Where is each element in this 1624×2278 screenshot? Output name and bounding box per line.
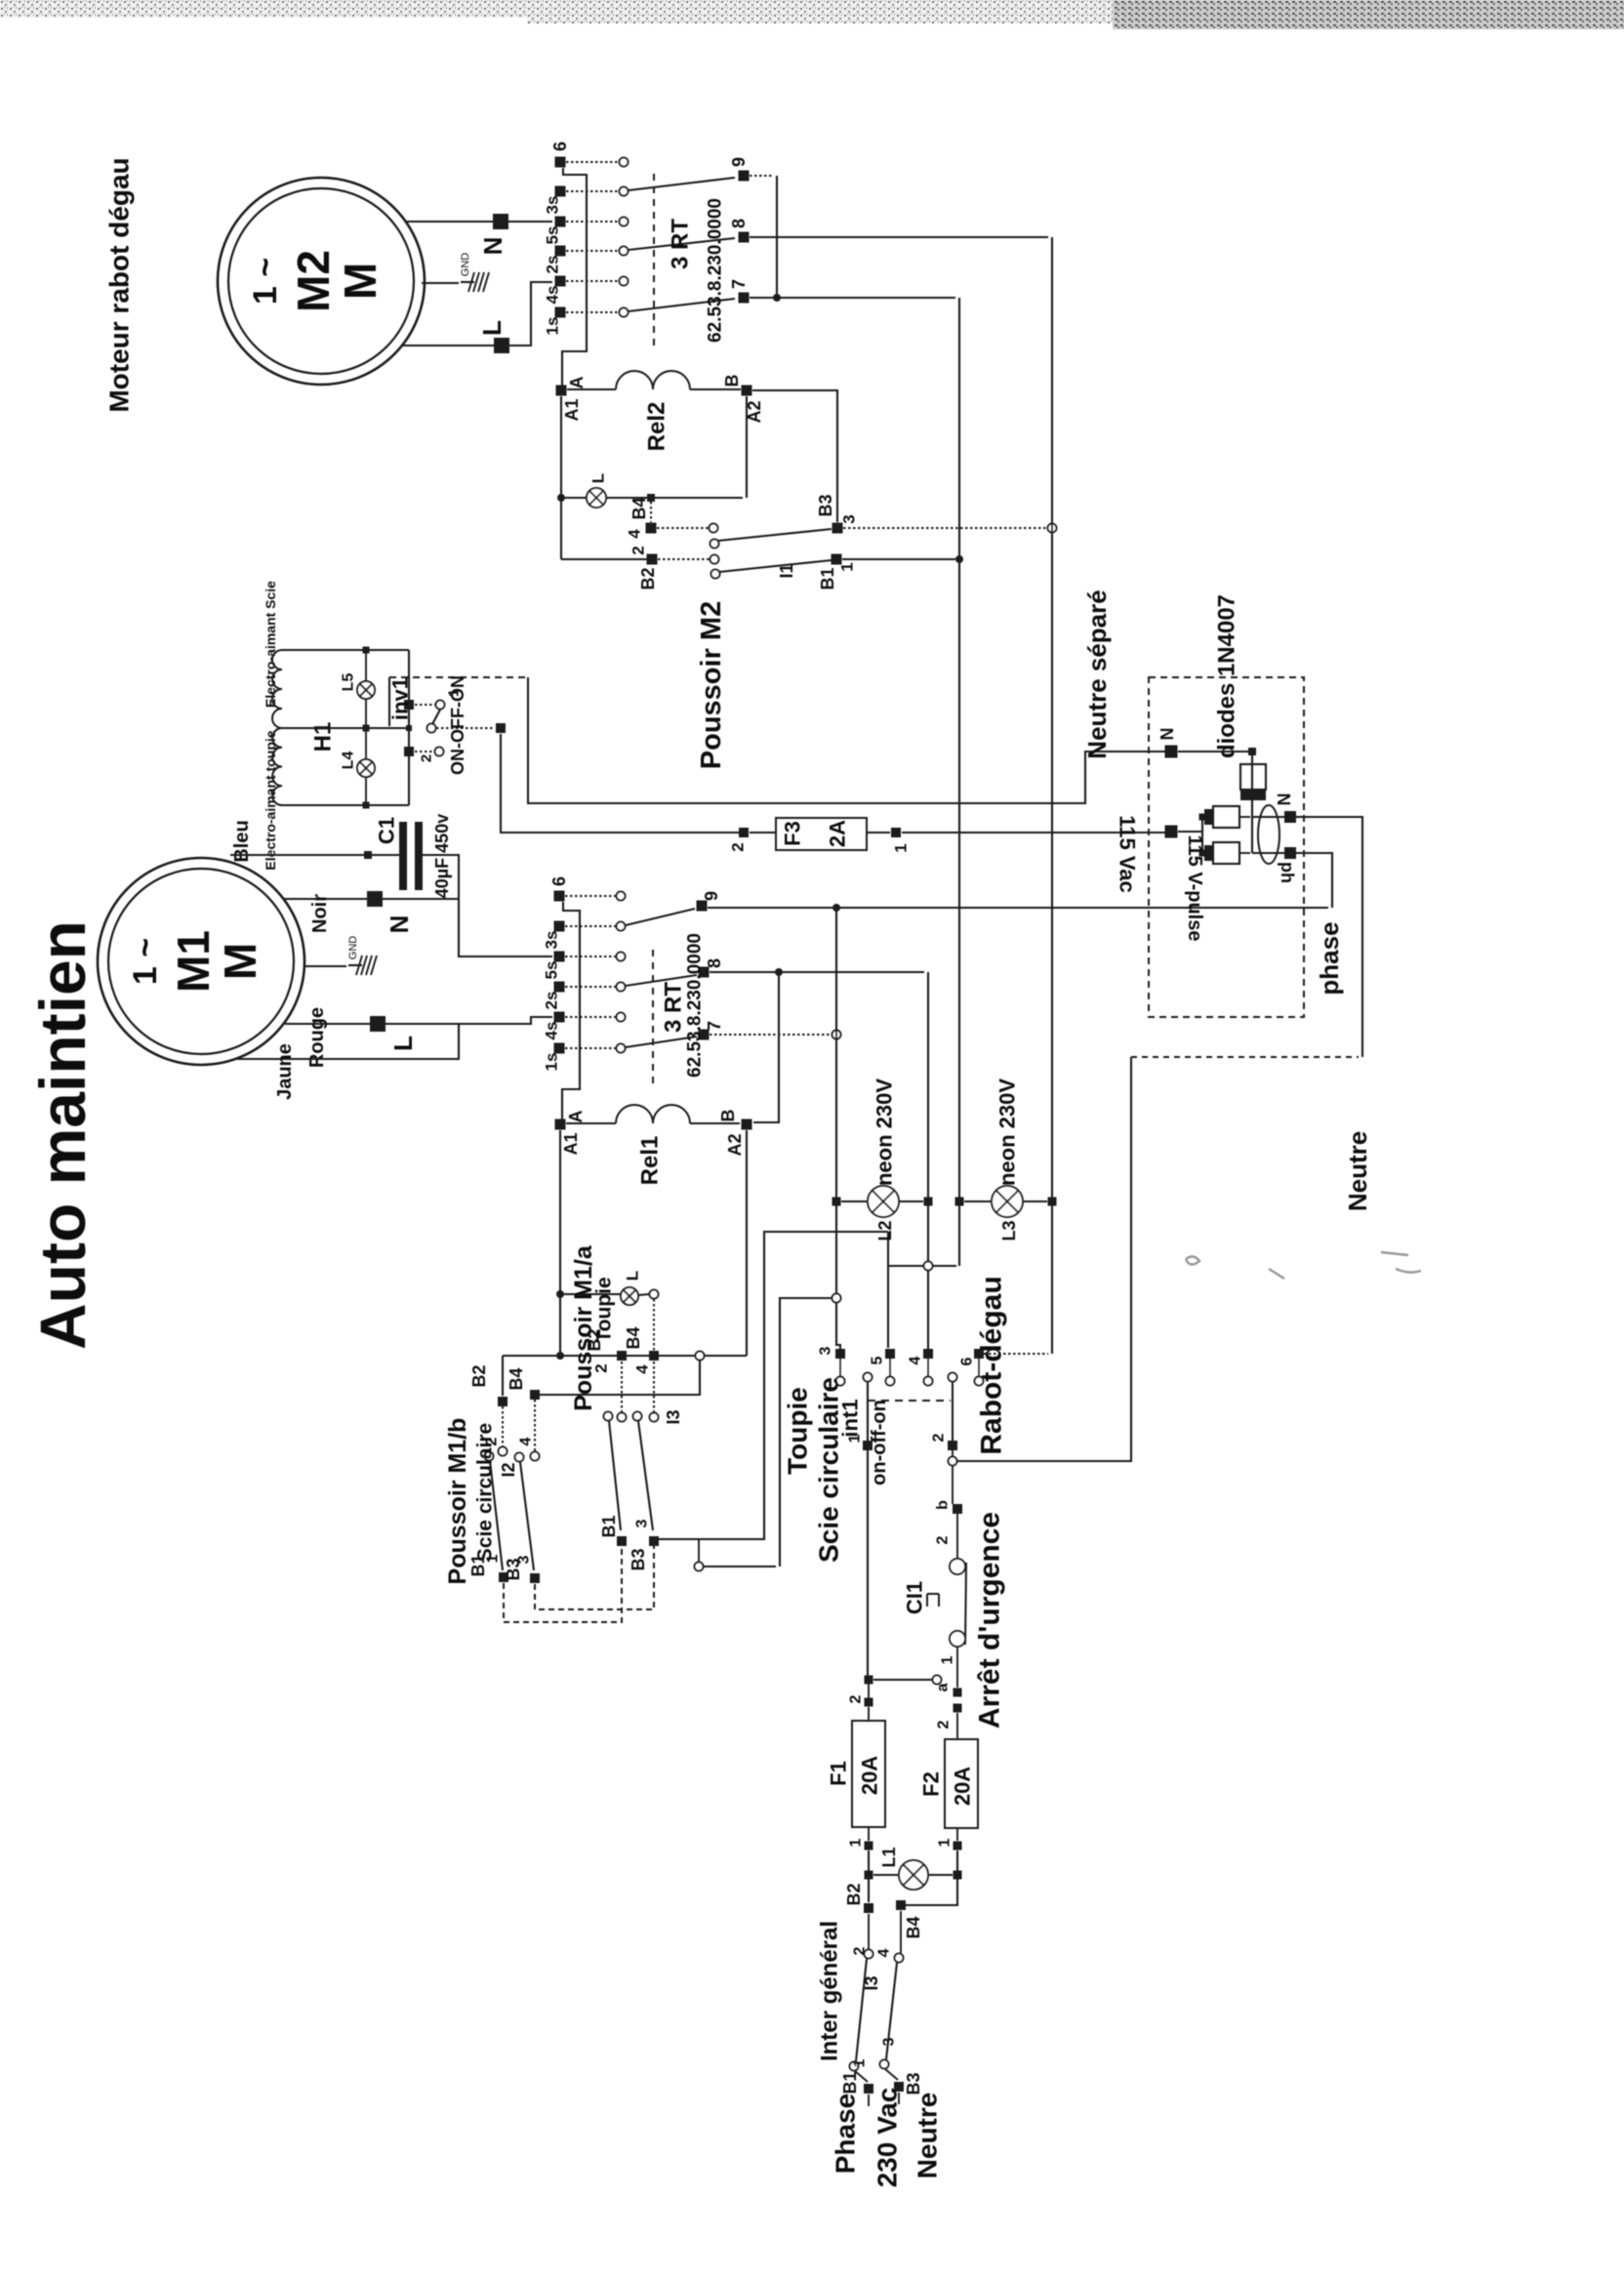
switch inv1	[404, 700, 414, 710]
terminal 9 K1	[697, 901, 708, 912]
svg-text:L3: L3	[999, 1220, 1019, 1241]
vertical M1-8 net	[927, 972, 929, 1350]
svg-text:Rel1: Rel1	[637, 1136, 664, 1186]
svg-text:A: A	[567, 377, 587, 389]
svg-text:5s: 5s	[544, 226, 562, 245]
wire neutre separe dashed	[1131, 1056, 1359, 1058]
svg-text:L: L	[388, 1036, 418, 1051]
svg-text:3: 3	[840, 514, 859, 523]
wire B3 M1a to selector net	[659, 1232, 888, 1539]
svg-text:B1: B1	[818, 567, 837, 590]
svg-text:GND: GND	[460, 253, 471, 277]
terminal 7 K2	[739, 293, 750, 304]
svg-text:ph: ph	[1278, 862, 1297, 883]
svg-text:2: 2	[848, 1694, 865, 1703]
wire K1-9	[708, 907, 1328, 909]
svg-text:9: 9	[729, 157, 749, 167]
svg-text:neon 230V: neon 230V	[873, 1078, 897, 1186]
svg-text:Noir: Noir	[309, 894, 331, 933]
svg-text:5: 5	[870, 1356, 886, 1364]
svg-text:M: M	[335, 263, 386, 300]
vertical phase bus F1	[867, 1450, 869, 1677]
switch int1 pole1 blade	[864, 1373, 873, 1382]
svg-text:4s: 4s	[543, 1022, 561, 1040]
svg-text:H1: H1	[310, 722, 337, 753]
svg-text:B3: B3	[904, 2072, 923, 2095]
wire Rouge / L	[285, 1017, 552, 1024]
wire A1 Rel2 down	[560, 396, 562, 559]
svg-text:B4: B4	[507, 1367, 526, 1390]
fuse F2	[945, 1739, 978, 1828]
svg-text:3: 3	[881, 2037, 898, 2046]
svg-text:B1: B1	[599, 1515, 619, 1537]
blades K1	[626, 909, 695, 925]
wire C1 to N node	[423, 855, 552, 956]
svg-text:I2: I2	[499, 1462, 518, 1477]
svg-text:2: 2	[852, 1946, 869, 1955]
wire K2-9 to 7	[750, 175, 772, 177]
wire N to D1	[1178, 751, 1248, 753]
svg-text:N: N	[1157, 728, 1177, 741]
svg-text:2: 2	[936, 1720, 953, 1729]
junction lamp L1 right	[954, 1871, 962, 1880]
svg-text:6: 6	[550, 142, 570, 151]
wire B3 to M2-8 drop	[843, 527, 1046, 529]
lamp row Rel2	[557, 494, 565, 502]
terminal B4 poussoir M2	[646, 523, 657, 534]
terminal B4 inter general	[896, 1900, 906, 1910]
contact M2/a	[657, 527, 709, 529]
wire K1-8	[710, 971, 924, 973]
terminal B3 poussoir M1a	[649, 1536, 659, 1546]
wire K2-7 long	[750, 297, 955, 299]
svg-text:A2: A2	[725, 1133, 745, 1156]
poussoir M1 bus row	[503, 1355, 747, 1357]
svg-text:3s: 3s	[544, 196, 562, 215]
svg-text:B1: B1	[840, 2071, 860, 2094]
wire bus left corner to B2 M1b	[502, 1356, 504, 1396]
blade inv1	[432, 710, 440, 724]
terminal B3 poussoir M2	[832, 523, 843, 534]
wire K1-7	[710, 1034, 832, 1036]
svg-text:B4: B4	[629, 497, 649, 519]
svg-text:Scie circulaire: Scie circulaire	[814, 1377, 844, 1563]
svg-text:3 RT: 3 RT	[661, 982, 687, 1033]
lamp row Rel1	[564, 1293, 621, 1295]
svg-text:Auto maintien: Auto maintien	[26, 920, 99, 1350]
svg-text:1: 1	[937, 1838, 954, 1847]
stub B1	[868, 2095, 870, 2106]
svg-text:L: L	[589, 473, 608, 483]
wire neutre separe from H1	[528, 677, 1167, 803]
blade I1	[719, 560, 832, 572]
mushroom symbol CI1	[927, 1594, 939, 1607]
terminal 115Vac	[1165, 826, 1178, 838]
lamp column H1	[365, 650, 367, 805]
terminal B2 poussoir M1a	[617, 1351, 627, 1361]
svg-text:L2: L2	[875, 1220, 895, 1241]
svg-text:diodes 1N4007: diodes 1N4007	[1214, 594, 1240, 758]
svg-text:N: N	[1275, 793, 1294, 806]
contactor K2 3RT M2	[555, 157, 566, 168]
wire int1-6 to M2-8 net	[984, 1353, 1048, 1355]
blades K2	[629, 178, 735, 190]
terminal B2 poussoir M1b	[498, 1397, 507, 1406]
svg-text:8: 8	[705, 958, 724, 968]
svg-text:L: L	[624, 1271, 642, 1281]
svg-text:M2: M2	[288, 250, 339, 312]
svg-text:F3: F3	[781, 821, 805, 846]
fuse F1	[868, 1684, 870, 1698]
terminal B4 poussoir M1b	[530, 1390, 540, 1400]
terminal F3-2	[739, 828, 749, 837]
svg-text:CI1: CI1	[903, 1581, 927, 1614]
svg-text:B4: B4	[904, 1916, 923, 1938]
svg-text:GND: GND	[347, 936, 359, 960]
svg-text:3: 3	[634, 1519, 651, 1527]
mech link K2	[653, 174, 655, 347]
svg-text:2: 2	[935, 1535, 952, 1544]
box neutre separe diodes	[1149, 677, 1304, 1017]
svg-text:4: 4	[908, 1356, 924, 1364]
svg-text:115 Vac: 115 Vac	[1116, 815, 1140, 893]
svg-text:9: 9	[702, 891, 721, 901]
wire F3 to 115Vac box	[902, 832, 1165, 834]
svg-text:115 V-pulse: 115 V-pulse	[1184, 835, 1205, 942]
vertical Rel1-A2 to K1-8	[753, 972, 779, 1122]
svg-text:62.53.8.230.0000: 62.53.8.230.0000	[706, 198, 726, 343]
svg-text:F2: F2	[919, 1771, 944, 1797]
blade CI1	[965, 1563, 966, 1645]
wire A1 Rel1 down	[559, 1130, 561, 1356]
wire N out	[1252, 816, 1286, 818]
svg-text:on-off-on: on-off-on	[869, 1400, 890, 1485]
switch int1 throw 3	[835, 1349, 845, 1359]
stub B3	[898, 2093, 900, 2104]
wire ph out	[1252, 852, 1286, 854]
svg-text:1 ~: 1 ~	[127, 938, 164, 985]
wire Jaune	[237, 1024, 459, 1059]
svg-text:4s: 4s	[544, 286, 562, 305]
svg-text:ON-OFF-ON: ON-OFF-ON	[448, 675, 467, 775]
switch int1 throw 4	[923, 1349, 933, 1359]
svg-text:1: 1	[940, 1655, 956, 1664]
svg-text:2: 2	[931, 1433, 948, 1442]
lamp L5	[357, 681, 375, 699]
svg-text:M: M	[215, 943, 265, 980]
svg-text:I3: I3	[664, 1409, 683, 1424]
terminal B3 poussoir M1b	[530, 1573, 540, 1583]
svg-text:Moteur rabot dégau: Moteur rabot dégau	[104, 157, 135, 412]
svg-text:B: B	[722, 375, 742, 387]
contactor K1 3RT M1	[554, 891, 565, 902]
svg-text:8: 8	[729, 219, 749, 228]
terminal B1 poussoir M1a	[617, 1536, 627, 1546]
wire cross link	[888, 1265, 956, 1267]
svg-text:L5: L5	[341, 673, 357, 692]
terminal N M2	[493, 214, 508, 229]
switch int1 pole2 blade	[949, 1373, 957, 1382]
fuse F3	[776, 818, 867, 850]
terminal N M1	[367, 891, 383, 907]
lamp L Rel2	[587, 488, 606, 508]
svg-text:1: 1	[838, 562, 857, 571]
mech link K1	[652, 950, 654, 1087]
relay coil Rel2	[556, 386, 567, 396]
svg-text:Poussoir M1/b: Poussoir M1/b	[444, 1418, 471, 1585]
svg-text:M1: M1	[168, 930, 219, 993]
svg-text:6: 6	[549, 876, 569, 886]
switch I3 pole1	[865, 1950, 873, 1959]
wire selector to int1-5	[887, 1232, 889, 1348]
svg-text:2: 2	[419, 754, 435, 762]
svg-text:Bleu: Bleu	[231, 820, 253, 862]
svg-text:Arrêt d'urgence: Arrêt d'urgence	[974, 1512, 1006, 1729]
svg-text:5s: 5s	[543, 961, 561, 980]
ground M2	[422, 282, 459, 284]
svg-text:L: L	[477, 320, 507, 336]
svg-text:2A: 2A	[826, 820, 850, 847]
switch int1 throw 5	[885, 1349, 895, 1359]
terminal B2 inter general	[864, 1903, 873, 1913]
svg-text:neon 230V: neon 230V	[995, 1078, 1020, 1186]
switch I3 pole2	[895, 1954, 904, 1963]
wire M2 L	[403, 282, 552, 346]
wire diode verticals	[1201, 817, 1203, 853]
svg-text:1: 1	[848, 1838, 865, 1847]
wire to B4 M1a	[653, 1299, 655, 1351]
vertical M1-9/7 net	[836, 908, 840, 1350]
svg-text:B2: B2	[844, 1883, 864, 1905]
svg-text:7: 7	[705, 1021, 724, 1031]
svg-text:I3: I3	[862, 1975, 881, 1990]
svg-text:Rabot-dégau: Rabot-dégau	[976, 1276, 1008, 1454]
svg-text:N: N	[478, 237, 507, 256]
pulse load oval	[1258, 805, 1279, 864]
switch int1 throw 6	[974, 1349, 984, 1359]
terminal 7 K1	[699, 1030, 710, 1040]
svg-text:B4: B4	[624, 1326, 643, 1349]
svg-text:B3: B3	[816, 494, 835, 516]
svg-text:4: 4	[626, 529, 644, 539]
svg-text:3 RT: 3 RT	[668, 219, 694, 269]
relay coil Rel1	[555, 1119, 566, 1130]
diode D3	[1199, 850, 1206, 857]
neon lamp L2	[832, 1198, 841, 1206]
wire A2 Rel2 to B3	[752, 390, 837, 522]
svg-text:A1: A1	[562, 398, 582, 421]
svg-text:Phase: Phase	[831, 2094, 861, 2175]
svg-text:2s: 2s	[543, 992, 561, 1010]
mech link int1	[868, 1400, 951, 1402]
svg-text:62.53.8.230.0000: 62.53.8.230.0000	[685, 933, 706, 1078]
wire N out box	[1304, 817, 1362, 1057]
scan smudge marks	[1186, 1252, 1421, 1279]
svg-text:Neutre séparé: Neutre séparé	[1082, 590, 1112, 758]
svg-text:3s: 3s	[543, 931, 561, 950]
svg-text:4: 4	[876, 1948, 893, 1957]
svg-text:B2: B2	[638, 567, 658, 590]
svg-text:1: 1	[852, 2058, 869, 2067]
junction B4 drop	[647, 494, 655, 502]
svg-text:Jaune: Jaune	[274, 1043, 296, 1100]
neon lamp L3	[955, 1198, 964, 1206]
wire CI1-a to F1 bus	[873, 1679, 932, 1681]
terminal B3 inter general	[894, 2082, 904, 2092]
blades poussoir M1b	[490, 1461, 503, 1570]
terminal B4 poussoir M1a	[649, 1351, 659, 1361]
svg-text:2: 2	[729, 842, 748, 851]
svg-text:C1: C1	[375, 817, 399, 844]
capacitor C1	[399, 822, 407, 890]
wire H1 top dashed	[389, 676, 528, 678]
blades poussoir M1a	[609, 1421, 621, 1530]
terminal B1 poussoir M2	[832, 554, 842, 565]
svg-text:4: 4	[518, 1437, 535, 1445]
wire B1 M1b to B1 M1a	[504, 1546, 622, 1622]
svg-text:20A: 20A	[858, 1756, 882, 1795]
contacts poussoir M1a	[621, 1362, 623, 1412]
svg-text:Electro-aimant toupie: Electro-aimant toupie	[263, 730, 278, 870]
lamp L1	[873, 1874, 898, 1876]
wire inv1 common to F3	[501, 734, 739, 833]
svg-text:B3: B3	[629, 1548, 648, 1570]
vertical M2-7 net	[958, 298, 960, 1266]
svg-text:L4: L4	[341, 752, 357, 770]
motor M1	[98, 858, 304, 1065]
svg-text:4: 4	[633, 1364, 652, 1374]
wire toupie circle link	[695, 1563, 704, 1571]
terminal 8 K2	[739, 232, 750, 243]
svg-text:3: 3	[516, 1555, 533, 1564]
terminal b CI1	[953, 1504, 962, 1514]
junction poussoir bus	[696, 1352, 705, 1361]
wire Noir	[283, 898, 459, 900]
junction int1-2	[952, 1450, 954, 1457]
terminals a CI1	[954, 1688, 962, 1697]
svg-text:Toupie: Toupie	[783, 1387, 813, 1475]
wire A2 Rel2 down to lamp row	[746, 396, 748, 498]
svg-text:230 Vac: 230 Vac	[873, 2088, 903, 2188]
diode D2	[1199, 814, 1206, 821]
svg-text:Neutre: Neutre	[1343, 1131, 1372, 1211]
svg-text:N: N	[385, 915, 414, 934]
svg-text:L1: L1	[879, 1847, 899, 1867]
svg-text:1s: 1s	[544, 317, 562, 336]
svg-text:1 ~: 1 ~	[247, 258, 284, 305]
wire pin6 K1 to A1 Rel1	[562, 902, 580, 1119]
terminal B1 inter general	[864, 2084, 873, 2094]
svg-text:B2: B2	[469, 1364, 489, 1387]
ground M1	[304, 965, 346, 967]
vertical M2-8 net	[1051, 237, 1053, 1354]
svg-text:Rel2: Rel2	[644, 402, 670, 452]
svg-text:7: 7	[729, 279, 749, 289]
wire F2 to B4	[906, 1851, 957, 1905]
wire B3 M1b to B3 M1a	[535, 1546, 654, 1609]
lamp L Rel1	[621, 1287, 638, 1305]
wire M2 N	[407, 221, 552, 223]
terminal B2 poussoir M2	[647, 554, 658, 565]
wire Bleu to C1	[230, 854, 400, 856]
svg-text:phase: phase	[1315, 921, 1344, 995]
svg-text:A: A	[566, 1111, 586, 1123]
svg-text:6: 6	[959, 1357, 976, 1365]
contacts poussoir M1b	[502, 1406, 504, 1446]
wire pin6 K2 to A1 Rel2	[562, 168, 587, 386]
wire B4 M1b link	[540, 1361, 700, 1395]
svg-text:B: B	[718, 1110, 738, 1122]
svg-text:Toupie: Toupie	[593, 1277, 616, 1342]
svg-text:Inter général: Inter général	[817, 1921, 843, 2061]
lamp L4	[357, 759, 375, 777]
svg-text:Scie circulaire: Scie circulaire	[474, 1423, 497, 1562]
terminal L M1	[370, 1016, 386, 1032]
svg-text:I1: I1	[777, 563, 796, 578]
wire K2-8 long	[750, 236, 1048, 238]
contact CI1 lower	[950, 1631, 965, 1647]
svg-text:A1: A1	[561, 1132, 581, 1155]
svg-text:inv1: inv1	[388, 677, 413, 720]
terminal N in box	[1165, 746, 1178, 758]
svg-text:F1: F1	[827, 1761, 851, 1786]
svg-text:1s: 1s	[543, 1053, 561, 1072]
svg-text:2: 2	[629, 546, 648, 554]
wire A2 Rel1 down	[746, 1130, 748, 1356]
electromagnet H1 windings	[272, 650, 282, 728]
terminal 8 K1	[699, 967, 710, 978]
terminal F2-1	[954, 1842, 962, 1851]
terminal F3-1	[891, 828, 901, 837]
terminal L M2	[494, 338, 509, 353]
svg-text:Neutre: Neutre	[913, 2093, 943, 2179]
svg-text:1: 1	[892, 843, 911, 852]
terminal B1 poussoir M1b	[499, 1572, 508, 1582]
motor M2	[218, 178, 425, 385]
scan noise band top	[0, 0, 1624, 18]
H1 ladder wires	[282, 649, 409, 651]
wire B1 to M2-7 drop	[842, 558, 955, 560]
svg-text:2s: 2s	[544, 256, 562, 274]
contact M2/b row	[561, 558, 647, 560]
wire neutre separe to int1-2	[957, 1057, 1131, 1461]
svg-text:Poussoir M2: Poussoir M2	[696, 601, 727, 769]
diode D1	[1251, 755, 1253, 764]
svg-text:b: b	[935, 1500, 952, 1510]
contact CI1 upper	[950, 1559, 965, 1574]
svg-text:Electro-aimant Scie: Electro-aimant Scie	[263, 581, 278, 708]
terminal 9 K2	[739, 171, 750, 182]
svg-text:20A: 20A	[951, 1767, 975, 1806]
svg-text:3: 3	[818, 1346, 834, 1355]
